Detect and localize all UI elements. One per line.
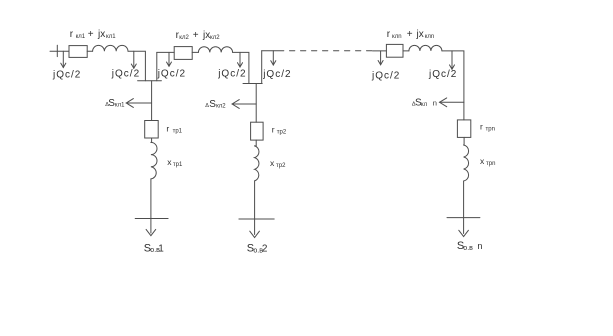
- svg-text:ΔSклn: ΔSклn: [412, 98, 437, 109]
- svg-text:jQc/2: jQc/2: [52, 70, 81, 81]
- svg-text:xтрn: xтрn: [480, 156, 495, 167]
- svg-text:xтр1: xтр1: [167, 157, 183, 168]
- svg-text:jQc/2: jQc/2: [428, 69, 457, 80]
- svg-text:jQc/2: jQc/2: [111, 68, 140, 79]
- svg-text:jQc/2: jQc/2: [217, 69, 246, 80]
- svg-text:rтрn: rтрn: [480, 122, 495, 133]
- svg-text:jQc/2: jQc/2: [371, 71, 400, 82]
- svg-text:rкл1+jxкл1: rкл1+jxкл1: [70, 29, 116, 40]
- svg-text:jQc/2: jQc/2: [157, 68, 186, 79]
- svg-text:jQc/2: jQc/2: [262, 69, 291, 80]
- svg-text:Sо.в1: Sо.в1: [144, 242, 165, 254]
- svg-text:ΔSкл1: ΔSкл1: [105, 98, 125, 109]
- svg-text:rтр2: rтр2: [272, 125, 287, 136]
- svg-text:rтр1: rтр1: [166, 124, 182, 135]
- svg-text:rкл2+jxкл2: rкл2+jxкл2: [176, 30, 221, 41]
- svg-text:xтр2: xтр2: [270, 158, 286, 169]
- svg-text:rклn+jxклn: rклn+jxклn: [387, 29, 434, 40]
- svg-text:ΔSкл2: ΔSкл2: [205, 99, 226, 110]
- svg-text:Sо.в2: Sо.в2: [247, 243, 268, 255]
- svg-text:Sо.вn: Sо.вn: [457, 240, 483, 252]
